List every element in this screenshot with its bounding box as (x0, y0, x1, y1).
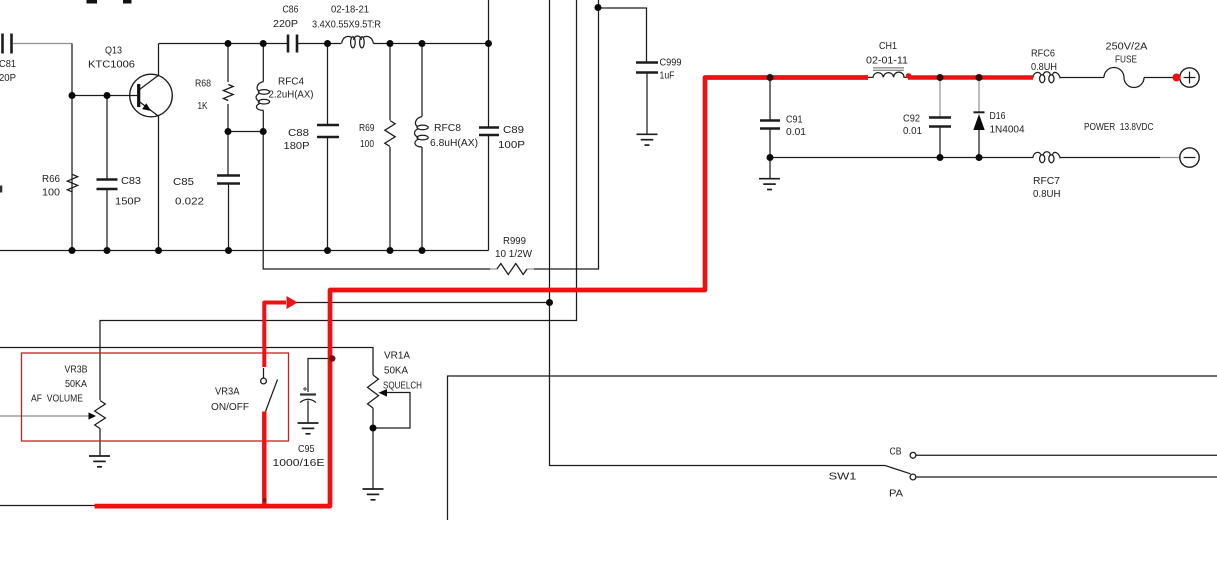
wire red main power path (95, 78, 869, 507)
wire red after CH1 (908, 75, 1033, 79)
wire long vertical to VR3B (100, 0, 577, 400)
svg-text:RFC8: RFC8 (434, 122, 461, 134)
node mute line (546, 299, 553, 306)
wire RFC8 column (421, 44, 423, 251)
svg-text:02-01-11: 02-01-11 (866, 55, 908, 67)
svg-text:VR1A: VR1A (384, 350, 410, 362)
svg-text:KTC1006: KTC1006 (88, 59, 135, 71)
fuse 250V/2A (1104, 41, 1148, 88)
terminal minus (1180, 148, 1199, 167)
svg-text:1K: 1K (198, 100, 208, 112)
svg-text:1000/16E: 1000/16E (273, 457, 325, 469)
capacitor C89 (479, 124, 525, 151)
node red CH1 right (906, 73, 911, 78)
svg-text:C999: C999 (660, 57, 682, 69)
resistor R69 (359, 121, 395, 151)
wire C999 feed (599, 8, 647, 63)
svg-text:C88: C88 (288, 127, 309, 139)
svg-text:R69: R69 (359, 122, 375, 134)
switch SW1 (829, 446, 916, 500)
wire to R999 row (263, 132, 490, 270)
inductor RFC7 (1033, 152, 1061, 200)
terminal red plus dot (1173, 74, 1181, 82)
svg-text:3.4X0.55X9.5T:R: 3.4X0.55X9.5T:R (312, 19, 381, 31)
top edge text fragments (87, 0, 132, 4)
left edge text fragment (0, 186, 2, 193)
wire CB out (916, 454, 1217, 456)
wire C89 column (488, 0, 490, 251)
svg-text:50KA: 50KA (384, 365, 408, 377)
capacitor C88 (284, 125, 340, 152)
wire R999 to C999 node (534, 0, 599, 269)
capacitor C999 (636, 57, 682, 82)
svg-text:R999: R999 (503, 235, 526, 247)
svg-text:1N4004: 1N4004 (990, 124, 1025, 136)
svg-text:CB: CB (890, 446, 902, 458)
diode D16 (973, 79, 1024, 158)
node red switch junction (263, 498, 267, 502)
inductor RFC6 (1031, 48, 1060, 83)
ground C999 (637, 73, 658, 146)
resistor R68 (195, 78, 233, 113)
wire RFC6 to fuse (1061, 77, 1105, 79)
capacitor C91 (760, 79, 806, 158)
wire C88 column (327, 44, 329, 251)
capacitor C92 (903, 79, 951, 158)
svg-text:0.01: 0.01 (903, 125, 922, 137)
svg-text:2.2uH(AX): 2.2uH(AX) (269, 89, 314, 101)
svg-text:180P: 180P (284, 140, 310, 152)
potentiometer VR1A (368, 350, 423, 489)
wire red below switch (262, 412, 266, 506)
node DC minus line (767, 154, 983, 161)
svg-text:SW1: SW1 (829, 471, 857, 483)
svg-text:0.8UH: 0.8UH (1033, 188, 1061, 200)
node top wire (225, 40, 493, 47)
svg-text:150P: 150P (115, 196, 141, 208)
node red C95 junction (329, 355, 335, 361)
svg-text:220P: 220P (273, 18, 298, 30)
wire bottom left (0, 505, 95, 507)
svg-text:C92: C92 (903, 113, 920, 125)
capacitor C86 (273, 4, 299, 53)
svg-text:100: 100 (42, 187, 60, 199)
choke CH1 (866, 40, 909, 77)
svg-text:D16: D16 (990, 110, 1006, 122)
transistor Q13 (88, 45, 172, 117)
ground VR3B (89, 456, 110, 467)
inductor 02-18-21 (312, 4, 381, 48)
wire RFC4 column (262, 44, 264, 132)
wire (13, 44, 489, 251)
svg-text:RFC7: RFC7 (1033, 175, 1060, 187)
capacitor C95 (273, 359, 331, 470)
inductor RFC4 (256, 76, 313, 111)
svg-text:C89: C89 (503, 124, 524, 136)
wire speaker line (448, 376, 1217, 520)
wire mute line (290, 302, 550, 304)
svg-text:0.8UH: 0.8UH (1031, 61, 1057, 73)
svg-text:0.01: 0.01 (786, 126, 806, 138)
svg-text:FUSE: FUSE (1115, 54, 1137, 66)
svg-text:VR3A: VR3A (215, 386, 240, 398)
wire fuse to plus terminal (1144, 77, 1173, 79)
node VR1A bottom (370, 425, 377, 432)
svg-text:1uF: 1uF (660, 70, 675, 82)
svg-text:6.8uH(AX): 6.8uH(AX) (430, 137, 478, 149)
node mid row (225, 128, 267, 135)
ground C95 (298, 423, 319, 434)
svg-text:20P: 20P (0, 72, 16, 84)
svg-text:C81: C81 (0, 58, 16, 70)
svg-text:100: 100 (360, 138, 374, 150)
svg-text:R66: R66 (42, 173, 60, 185)
node C999 (595, 4, 602, 11)
wire squelch line (0, 348, 373, 376)
capacitor C85 (173, 176, 240, 208)
wire red switch branch with arrow (264, 296, 297, 367)
wire bottom rail (0, 250, 489, 252)
node bottom rail (69, 247, 426, 254)
wire R69 column (389, 44, 391, 251)
svg-text:AF VOLUME: AF VOLUME (31, 393, 83, 405)
inductor RFC8 (415, 117, 479, 150)
svg-text:ON/OFF: ON/OFF (211, 401, 249, 413)
node base row (69, 92, 111, 99)
svg-text:C95: C95 (298, 443, 315, 455)
svg-text:C83: C83 (121, 175, 141, 187)
potentiometer VR3B (0, 364, 105, 456)
svg-text:50KA: 50KA (65, 378, 87, 390)
svg-text:250V/2A: 250V/2A (1106, 41, 1148, 53)
svg-text:PA: PA (889, 488, 903, 500)
label POWER 13.8VDC (1084, 121, 1154, 133)
wire R68/C85 column (228, 44, 263, 251)
node red bus taps (767, 74, 983, 81)
wire PA out (916, 476, 1217, 478)
wire long vertical to SW1 (550, 0, 886, 466)
svg-text:C85: C85 (173, 176, 194, 188)
svg-text:CH1: CH1 (879, 40, 897, 52)
svg-text:SQUELCH: SQUELCH (383, 380, 422, 392)
svg-text:POWER 13.8VDC: POWER 13.8VDC (1084, 121, 1154, 133)
capacitor C83 (97, 175, 142, 208)
svg-text:Q13: Q13 (105, 45, 122, 57)
switch VR3A (211, 368, 278, 413)
svg-text:C86: C86 (283, 4, 299, 16)
svg-text:10 1/2W: 10 1/2W (495, 248, 532, 260)
svg-text:VR3B: VR3B (65, 364, 88, 376)
svg-text:02-18-21: 02-18-21 (331, 4, 369, 16)
capacitor C81 (0, 34, 16, 85)
resistor R999 (490, 235, 534, 275)
ground VR1A (363, 489, 384, 500)
svg-text:RFC6: RFC6 (1031, 48, 1055, 60)
ground C91 (759, 158, 780, 190)
wire DC minus line (770, 157, 1180, 159)
red box AF volume (22, 353, 289, 441)
svg-text:C91: C91 (786, 114, 803, 126)
svg-text:100P: 100P (498, 139, 525, 151)
terminal plus (1180, 68, 1199, 87)
svg-text:RFC4: RFC4 (278, 76, 304, 88)
svg-text:R68: R68 (195, 78, 211, 90)
resistor R66 (42, 173, 78, 199)
svg-text:0.022: 0.022 (175, 196, 204, 208)
